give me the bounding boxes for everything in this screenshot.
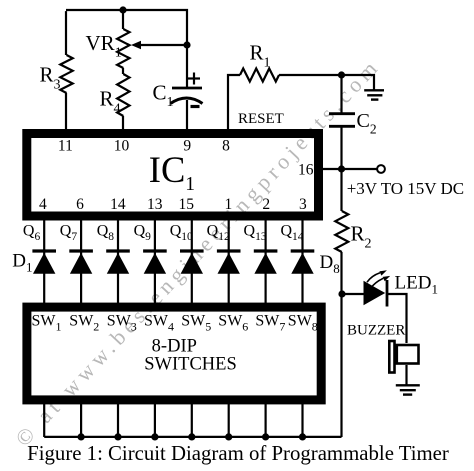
svg-text:R2: R2 [351,222,372,252]
bus junction [299,433,306,440]
wire IC pin 2 to switch SW7 [265,220,267,304]
svg-text:6: 6 [76,196,84,213]
resistor R4 [117,74,129,116]
wire pin11 lead below R3 [65,93,67,133]
svg-text:R3: R3 [40,63,61,93]
8-DIP switches box [27,307,321,400]
svg-text:Q10: Q10 [170,223,193,244]
resistor R3 [60,55,72,93]
svg-text:9: 9 [183,138,191,155]
LED LED1 [364,270,391,306]
diode D5 [180,251,204,274]
wire C1 to pin9 [186,100,188,133]
svg-text:Q14: Q14 [280,223,303,244]
node top rail / VR1 junction [119,6,126,13]
wire R1 right to +V node [279,74,342,76]
svg-text:C1: C1 [153,80,174,110]
wire pin8 up and right to R1 [228,75,240,133]
svg-text:3: 3 [299,196,307,213]
svg-text:LED1: LED1 [395,273,438,297]
svg-text:+3V TO 15V DC: +3V TO 15V DC [347,179,464,198]
svg-text:14: 14 [110,196,126,213]
svg-text:15: 15 [178,196,194,213]
wire VR1 wiper to pin9 node [135,44,187,46]
wire IC pin 3 to switch SW8 [301,220,303,304]
wire pin9 node to C1 [186,45,188,87]
wire R2 to LED node down to bottom bus [340,252,342,437]
wire bottom ground bus [44,436,341,438]
svg-text:SW8: SW8 [288,313,318,334]
svg-text:11: 11 [58,138,73,155]
buzzer piezo element [389,341,418,373]
svg-text:IC1: IC1 [149,149,195,195]
svg-text:Q13: Q13 [244,223,267,244]
wire pin10 bottom lead [122,116,124,133]
wire IC pin 4 to switch SW1 [43,220,45,304]
wire IC pin 15 to switch SW5 [191,220,193,304]
node pin16 supply junction [338,165,345,172]
VR1 wiper arrowhead [131,41,141,49]
resistor R2 [335,211,348,252]
diode D3 [106,251,130,274]
svg-text:10: 10 [114,138,130,155]
ground below buzzer [396,385,420,394]
node reset rail top junction [338,71,345,78]
wire IC pin 1 to switch SW6 [228,220,230,304]
bus junction [78,433,85,440]
wire SW8 to bottom bus [301,404,303,437]
wire C2 down to pin16 node [340,127,342,212]
svg-text:VR1: VR1 [86,31,122,61]
wire VR1-R4 junction [122,68,124,74]
svg-text:SW6: SW6 [218,313,248,334]
svg-text:SW7: SW7 [255,313,285,334]
wire pin16 to supply terminal [323,168,377,170]
watermark diagonal site text [10,53,385,451]
svg-text:8: 8 [222,138,230,155]
capacitor C2 [329,114,355,127]
wire SW1 to bottom bus [43,404,45,437]
svg-text:Q8: Q8 [97,223,115,244]
wire buzzer to ground [405,365,407,385]
wire LED cathode to buzzer [388,294,407,343]
wire IC pin 14 to switch SW3 [117,220,119,304]
capacitor C1 polarized [171,73,203,107]
svg-text:SW2: SW2 [69,313,99,334]
potentiometer VR1 [117,29,129,68]
svg-text:SW1: SW1 [32,313,62,334]
bus junction [188,433,195,440]
svg-text:BUZZER: BUZZER [347,322,405,338]
svg-text:R1: R1 [250,41,271,71]
wire top rail from pin11 to pin9 node [65,11,67,55]
wire SW6 to bottom bus [228,404,230,437]
wire SW5 to bottom bus [191,404,193,437]
svg-text:1: 1 [225,196,233,213]
svg-text:RESET: RESET [238,111,284,127]
node LED tap junction [338,290,345,297]
diode D6 [217,251,241,274]
bus junction [114,433,121,440]
wire IC pin 13 to switch SW4 [154,220,156,304]
wire LED node to LED anode [342,293,364,295]
svg-text:SW5: SW5 [181,313,211,334]
wire +V node to ground stub [342,75,375,90]
bus junction [262,433,269,440]
bus junction [225,433,232,440]
svg-text:13: 13 [147,196,163,213]
wire SW4 to bottom bus [154,404,156,437]
diode D8 [291,251,315,274]
supply terminal circle [377,165,385,173]
svg-text:8-DIP: 8-DIP [152,337,197,357]
wire pin10 top lead [122,10,124,29]
svg-text:R4: R4 [100,87,121,117]
wire SW3 to bottom bus [117,404,119,437]
svg-text:C2: C2 [357,110,377,137]
node pin9 / wiper junction [183,41,190,48]
svg-text:D1: D1 [12,251,32,275]
wire IC pin 6 to switch SW2 [80,220,82,304]
svg-text:D8: D8 [320,252,340,276]
svg-text:2: 2 [262,196,270,213]
svg-text:Q6: Q6 [23,223,41,244]
ground top right [364,90,384,99]
wire SW7 to bottom bus [265,404,267,437]
svg-text:Q7: Q7 [60,223,78,244]
diode D1 [32,251,56,274]
bus junction [151,433,158,440]
svg-text:16: 16 [298,162,314,179]
svg-text:Figure 1: Circuit Diagram of P: Figure 1: Circuit Diagram of Programmabl… [27,442,449,465]
resistor R1 [240,69,279,82]
diode D2 [69,251,93,274]
op IC1 box [27,134,319,217]
diode D7 [254,251,278,274]
wire SW2 to bottom bus [80,404,82,437]
svg-text:SWITCHES: SWITCHES [144,355,237,375]
svg-text:4: 4 [39,196,47,213]
diode D4 [143,251,167,274]
svg-text:Q9: Q9 [134,223,152,244]
svg-text:SW4: SW4 [144,313,174,334]
wire +V rail down to C2 [340,75,342,114]
